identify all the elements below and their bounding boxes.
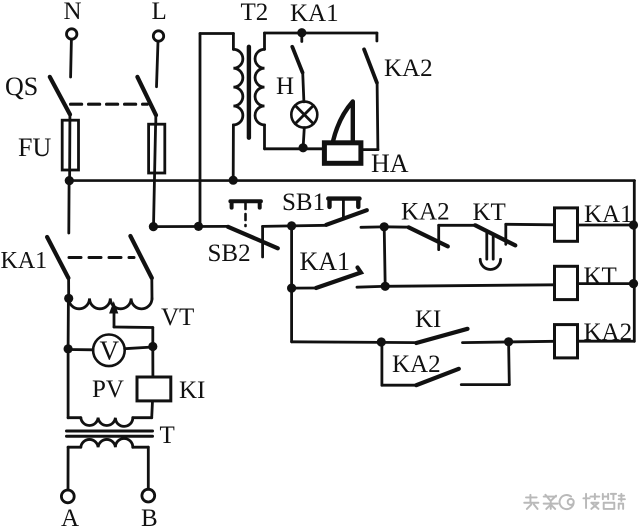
svg-text:T: T — [160, 422, 175, 449]
svg-text:KA2: KA2 — [401, 199, 450, 226]
svg-text:SB2: SB2 — [208, 240, 251, 267]
svg-text:PV: PV — [92, 376, 124, 403]
svg-text:VT: VT — [161, 304, 194, 331]
svg-text:KA1: KA1 — [1, 248, 48, 274]
svg-text:KT: KT — [584, 263, 617, 290]
svg-text:KA1: KA1 — [300, 247, 351, 276]
svg-text:KI: KI — [179, 377, 205, 404]
svg-text:HA: HA — [371, 149, 409, 178]
svg-text:KA2: KA2 — [392, 351, 441, 378]
svg-text:KA2: KA2 — [584, 319, 633, 346]
svg-text:SB1: SB1 — [282, 189, 325, 216]
svg-text:T2: T2 — [241, 0, 269, 26]
svg-text:QS: QS — [5, 72, 38, 101]
svg-text:A: A — [61, 505, 79, 527]
svg-text:KA2: KA2 — [384, 55, 433, 82]
svg-text:N: N — [64, 0, 82, 25]
svg-text:KT: KT — [473, 199, 506, 226]
svg-text:FU: FU — [18, 133, 51, 162]
svg-text:KA1: KA1 — [584, 201, 633, 228]
svg-text:KA1: KA1 — [290, 0, 339, 27]
svg-text:KI: KI — [415, 306, 441, 333]
svg-text:L: L — [152, 0, 167, 25]
svg-text:B: B — [141, 505, 158, 527]
svg-text:H: H — [276, 73, 294, 100]
svg-text:V: V — [100, 336, 120, 366]
